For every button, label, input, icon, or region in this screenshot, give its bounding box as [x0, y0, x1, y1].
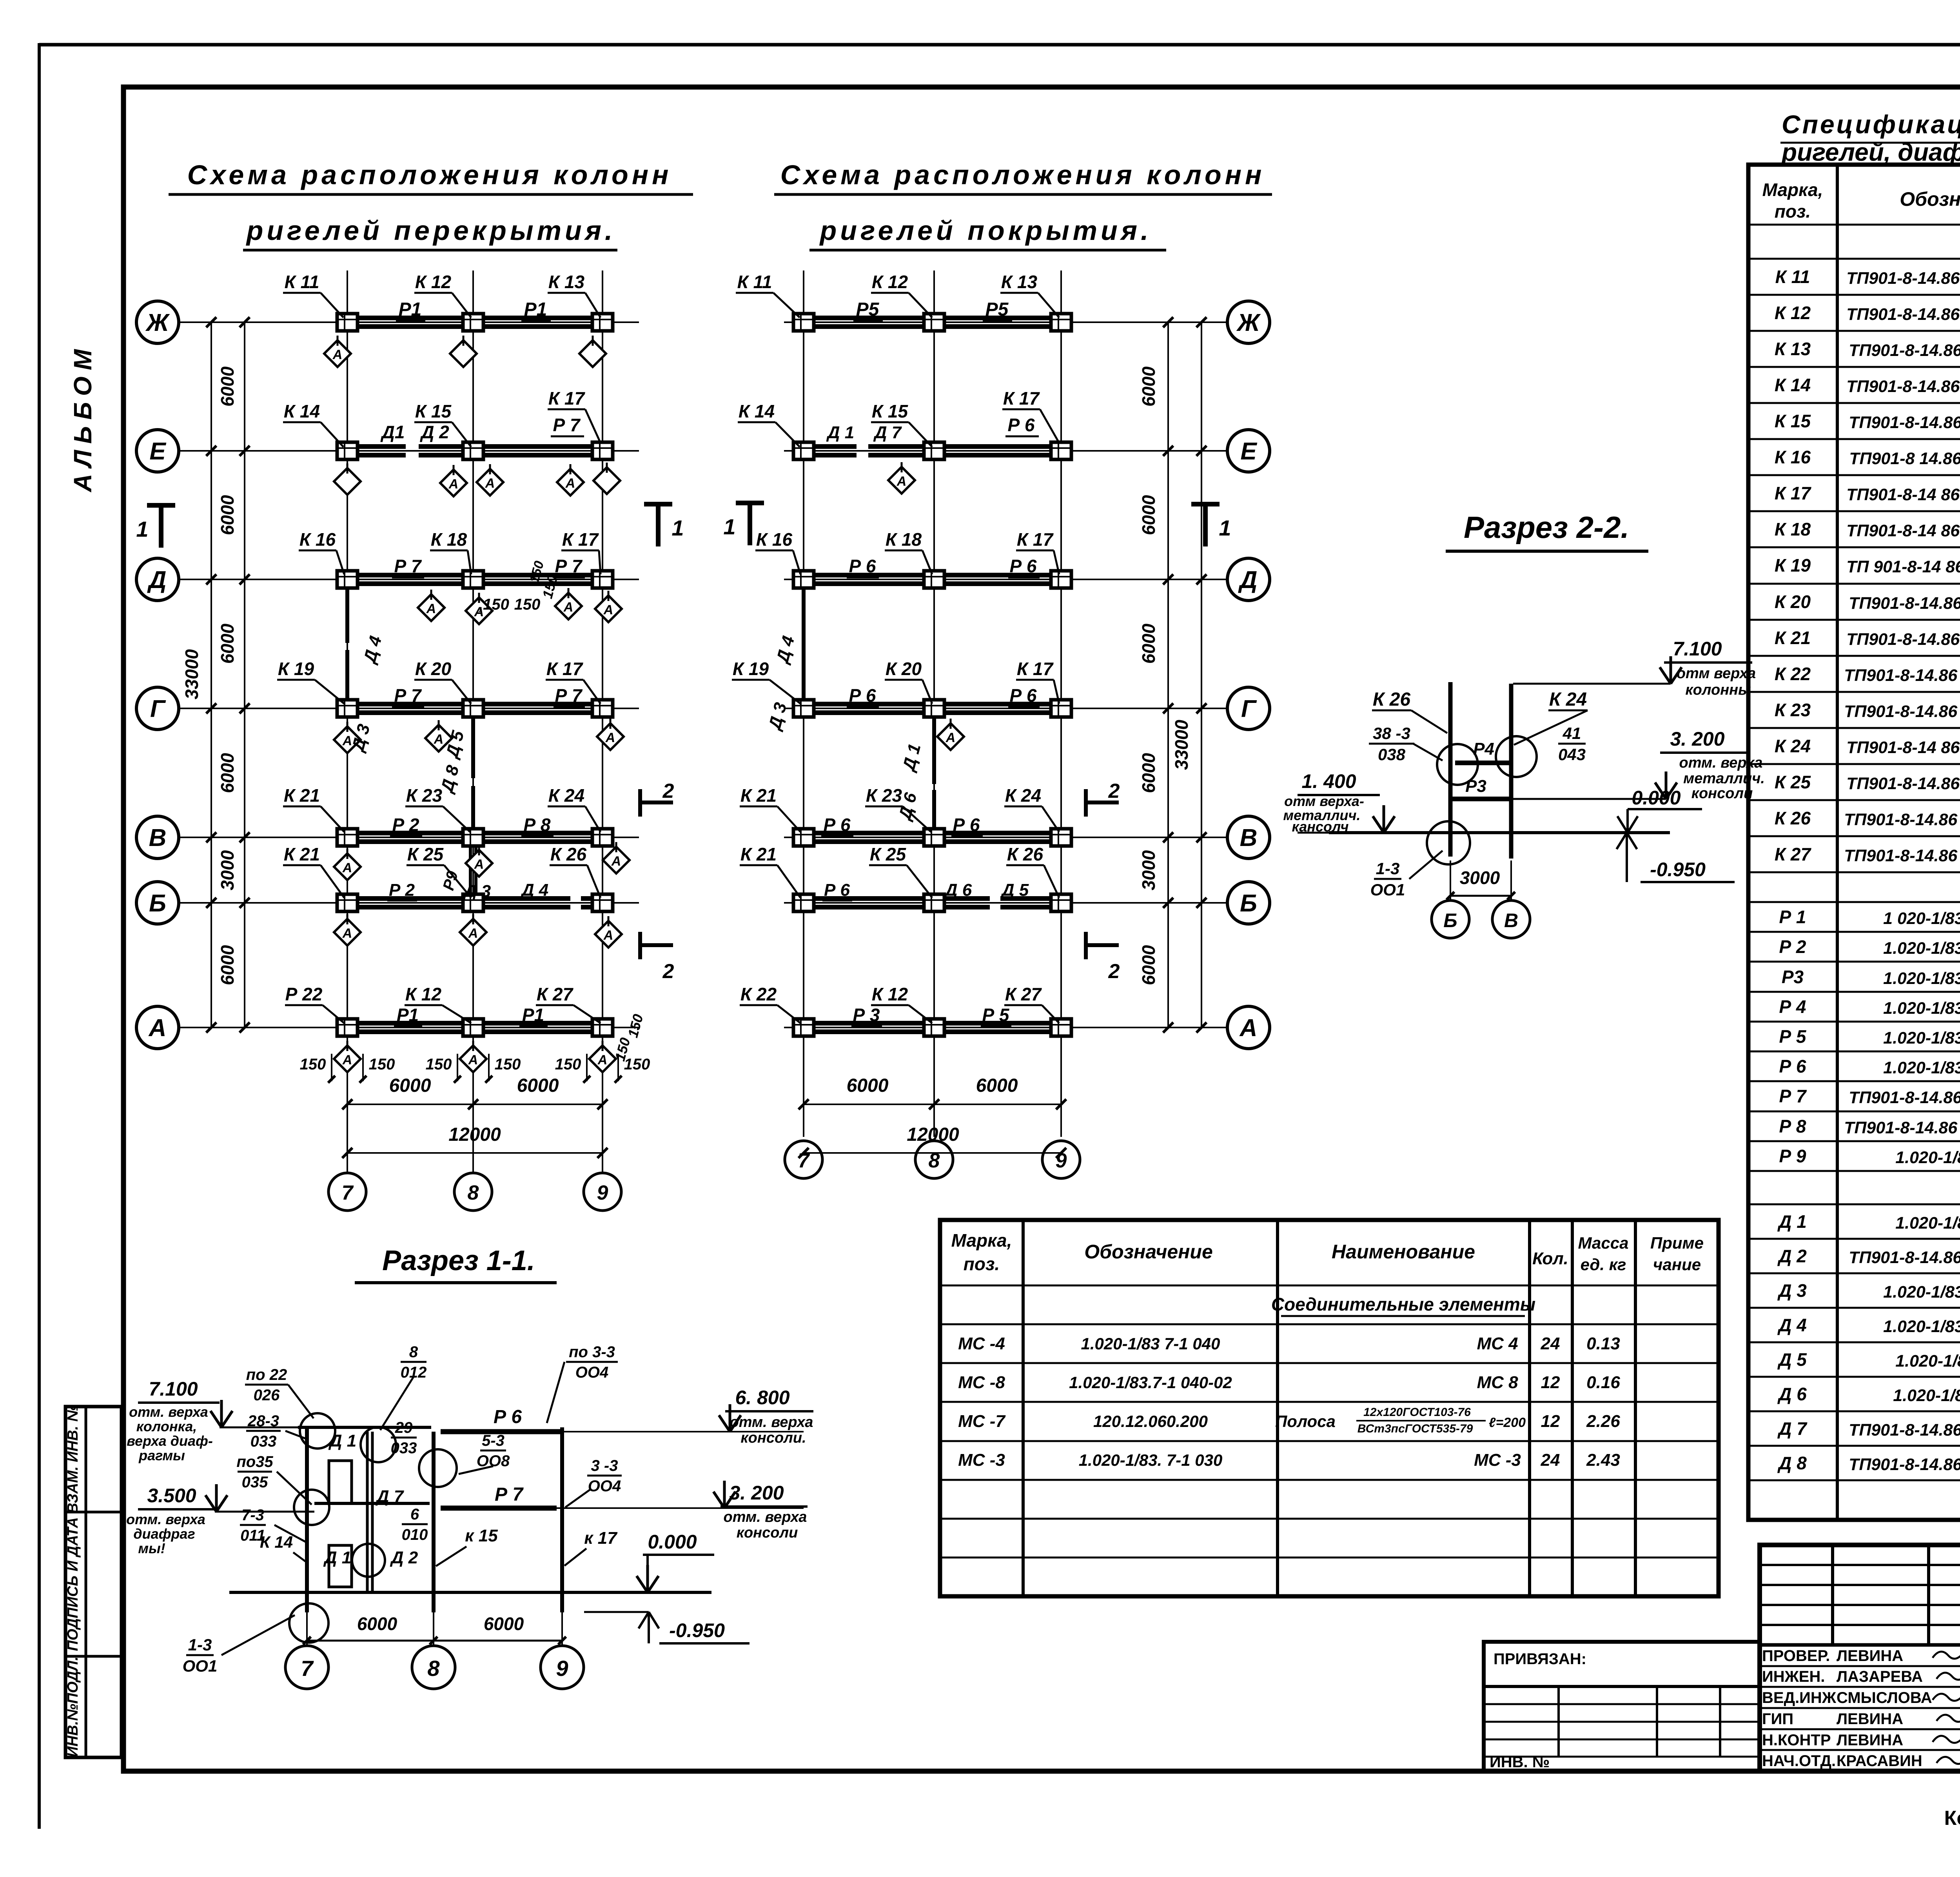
svg-text:Д 7: Д 7	[873, 423, 902, 442]
svg-text:К 19: К 19	[733, 659, 769, 679]
svg-text:Д 2: Д 2	[390, 1548, 418, 1567]
svg-text:8: 8	[929, 1149, 940, 1172]
svg-text:6000: 6000	[217, 945, 238, 985]
svg-text:Р 6: Р 6	[1779, 1056, 1806, 1076]
svg-text:Обозначение: Обозначение	[1900, 188, 1960, 210]
svg-text:035: 035	[242, 1474, 268, 1491]
svg-text:1.020-1/83.3-1 16-01: 1.020-1/83.3-1 16-01	[1883, 969, 1960, 988]
svg-text:Г: Г	[150, 695, 166, 722]
svg-text:Соединительные элементы: Соединительные элементы	[1271, 1294, 1535, 1314]
svg-text:К 24: К 24	[1549, 689, 1587, 710]
svg-text:5-3: 5-3	[482, 1432, 505, 1449]
svg-text:150: 150	[426, 1056, 452, 1073]
svg-text:отм. верха: отм. верха	[730, 1414, 813, 1430]
svg-text:К 20: К 20	[886, 659, 922, 679]
svg-text:Ж: Ж	[1236, 309, 1261, 336]
svg-text:3 -3: 3 -3	[591, 1457, 618, 1474]
svg-text:К 24: К 24	[1775, 736, 1811, 756]
svg-text:А: А	[468, 1053, 478, 1067]
svg-text:1: 1	[671, 516, 684, 540]
svg-text:рагмы: рагмы	[138, 1447, 185, 1463]
svg-text:6000: 6000	[484, 1614, 524, 1634]
svg-text:6000: 6000	[1138, 623, 1159, 664]
svg-text:7: 7	[301, 1656, 314, 1681]
svg-text:К 16: К 16	[756, 529, 793, 550]
svg-text:9: 9	[1056, 1149, 1067, 1172]
svg-text:верха диаф-: верха диаф-	[127, 1433, 213, 1449]
svg-text:1.020-1/83.3-1 02-02: 1.020-1/83.3-1 02-02	[1883, 939, 1960, 958]
svg-text:К 16: К 16	[299, 529, 336, 550]
svg-text:ТП901-8-14 86КЖИ 200.00.00: ТП901-8-14 86КЖИ 200.00.00	[1846, 485, 1960, 504]
svg-text:1.020-1/83. 4-1 21: 1.020-1/83. 4-1 21	[1893, 1386, 1960, 1405]
svg-text:А: А	[1239, 1015, 1258, 1042]
svg-text:Обозначение: Обозначение	[1084, 1241, 1213, 1263]
svg-text:150: 150	[624, 1012, 646, 1039]
svg-text:К 11: К 11	[737, 272, 772, 292]
svg-text:поз.: поз.	[1775, 201, 1811, 221]
svg-text:Г: Г	[1241, 695, 1257, 722]
svg-text:Д 4: Д 4	[1777, 1315, 1807, 1335]
svg-text:отм. верха: отм. верха	[129, 1404, 208, 1420]
svg-text:Д1: Д1	[380, 422, 405, 442]
svg-text:А: А	[563, 600, 573, 615]
svg-text:К 27: К 27	[1775, 844, 1812, 864]
svg-text:ПРОВЕР.: ПРОВЕР.	[1762, 1647, 1830, 1665]
svg-text:Б: Б	[149, 890, 166, 917]
svg-text:К 24: К 24	[1005, 785, 1041, 806]
svg-text:Разрез 2-2.: Разрез 2-2.	[1464, 510, 1629, 545]
svg-text:К 13: К 13	[1775, 339, 1811, 359]
svg-text:6000: 6000	[217, 753, 238, 793]
svg-text:6000: 6000	[389, 1075, 431, 1096]
svg-text:1: 1	[723, 514, 735, 539]
svg-text:ОО1: ОО1	[183, 1657, 218, 1675]
svg-text:6000: 6000	[847, 1075, 889, 1096]
svg-text:Р 5: Р 5	[1779, 1026, 1806, 1047]
svg-text:ВСт3псГОСТ535-79: ВСт3псГОСТ535-79	[1357, 1422, 1473, 1435]
svg-text:6000: 6000	[217, 366, 238, 407]
svg-text:1.020-1/83. 7-1 030: 1.020-1/83. 7-1 030	[1079, 1451, 1223, 1469]
svg-text:по 3-3: по 3-3	[569, 1343, 615, 1361]
svg-text:К 22: К 22	[1775, 664, 1811, 684]
svg-text:СМЫСЛОВА: СМЫСЛОВА	[1837, 1689, 1932, 1706]
svg-text:ИНВ. №: ИНВ. №	[1490, 1754, 1550, 1771]
svg-text:ТП901-8-14.86КЖИ451.00.00: ТП901-8-14.86КЖИ451.00.00	[1849, 1455, 1960, 1474]
svg-text:К 21: К 21	[284, 785, 320, 806]
svg-text:ТП901-8-14.86КЖИ200.00.00: ТП901-8-14.86КЖИ200.00.00	[1849, 413, 1960, 432]
svg-text:К 19: К 19	[278, 659, 314, 679]
svg-text:2.43: 2.43	[1586, 1450, 1620, 1470]
svg-text:Д 6: Д 6	[1777, 1384, 1807, 1404]
svg-text:К 14: К 14	[1775, 375, 1811, 395]
svg-text:чание: чание	[1653, 1255, 1701, 1274]
svg-text:24: 24	[1541, 1450, 1560, 1470]
svg-text:1.020-1/83.4-1 21-01: 1.020-1/83.4-1 21-01	[1883, 1283, 1960, 1302]
svg-text:12: 12	[1541, 1373, 1560, 1392]
svg-text:К 14: К 14	[260, 1533, 293, 1551]
svg-text:3000: 3000	[217, 850, 238, 890]
svg-text:В: В	[149, 824, 167, 851]
svg-text:ТП901-8-14.86 КЖИ 401.00.00: ТП901-8-14.86 КЖИ 401.00.00	[1844, 1118, 1960, 1137]
svg-text:колонны: колонны	[1685, 682, 1751, 698]
svg-text:Схема расположения колонн: Схема расположения колонн	[187, 160, 672, 190]
svg-text:Д 1: Д 1	[898, 742, 924, 774]
svg-text:А: А	[605, 730, 615, 745]
svg-text:ТП901-8-14.86 КЖИ 200.00.00: ТП901-8-14.86 КЖИ 200.00.00	[1844, 666, 1960, 685]
svg-text:А: А	[897, 474, 907, 489]
svg-text:Наименование: Наименование	[1332, 1241, 1475, 1263]
svg-text:033: 033	[250, 1433, 277, 1450]
svg-text:33000: 33000	[1171, 720, 1192, 770]
svg-text:6000: 6000	[1138, 495, 1159, 535]
svg-text:К 17: К 17	[562, 529, 599, 550]
svg-text:Д 3: Д 3	[463, 882, 491, 901]
svg-text:Н.КОНТР: Н.КОНТР	[1762, 1732, 1831, 1749]
svg-text:ЛЕВИНА: ЛЕВИНА	[1837, 1647, 1903, 1665]
svg-text:А: А	[342, 926, 352, 941]
svg-text:0.16: 0.16	[1586, 1373, 1620, 1392]
svg-text:6000: 6000	[976, 1075, 1018, 1096]
svg-text:к 15: к 15	[465, 1526, 498, 1545]
svg-text:К 26: К 26	[1373, 689, 1411, 710]
svg-text:Марка,: Марка,	[1762, 180, 1823, 200]
svg-text:К 25: К 25	[407, 844, 444, 864]
svg-text:А: А	[485, 476, 495, 491]
svg-text:Р1: Р1	[397, 1005, 419, 1025]
svg-text:1.020-1/83.3-1 02-01: 1.020-1/83.3-1 02-01	[1883, 1058, 1960, 1077]
svg-text:МС -8: МС -8	[958, 1373, 1005, 1392]
svg-text:6000: 6000	[217, 623, 238, 664]
svg-text:12х120ГОСТ103-76: 12х120ГОСТ103-76	[1363, 1406, 1471, 1419]
svg-text:Р4: Р4	[1473, 739, 1494, 759]
svg-text:28-3: 28-3	[247, 1412, 279, 1430]
svg-text:К 21: К 21	[740, 844, 777, 864]
svg-text:К 14: К 14	[739, 401, 775, 421]
svg-text:К 20: К 20	[415, 659, 452, 679]
svg-text:2: 2	[1108, 960, 1120, 983]
svg-text:Р 6: Р 6	[849, 685, 876, 706]
svg-text:41: 41	[1563, 724, 1581, 742]
svg-text:К 23: К 23	[866, 785, 902, 806]
svg-text:АЛЬБОМ: АЛЬБОМ	[69, 343, 97, 493]
svg-text:ОО4: ОО4	[588, 1478, 621, 1495]
svg-text:Е: Е	[149, 438, 166, 465]
svg-text:Д 1: Д 1	[826, 423, 854, 442]
svg-text:консоли: консоли	[1691, 785, 1753, 802]
svg-text:А: А	[332, 347, 343, 362]
svg-text:ТП901-8-14 86 КЖИ201 00.00: ТП901-8-14 86 КЖИ201 00.00	[1846, 521, 1960, 540]
svg-text:Приме: Приме	[1650, 1234, 1704, 1252]
svg-text:А: А	[342, 860, 352, 875]
svg-text:Д: Д	[1238, 566, 1258, 594]
svg-text:-0.950: -0.950	[1650, 859, 1706, 880]
svg-text:3000: 3000	[1460, 868, 1500, 888]
svg-text:1.020-1/83 4-1 31: 1.020-1/83 4-1 31	[1895, 1214, 1960, 1233]
svg-text:033: 033	[391, 1440, 417, 1457]
svg-text:1.020-1/83 3-1 14: 1.020-1/83 3-1 14	[1895, 1148, 1960, 1167]
svg-text:К 18: К 18	[886, 529, 922, 550]
svg-text:Р 7: Р 7	[394, 556, 422, 576]
svg-text:ℓ=200: ℓ=200	[1489, 1415, 1526, 1430]
svg-text:3.500: 3.500	[147, 1485, 196, 1507]
svg-text:А: А	[434, 732, 444, 747]
svg-text:150: 150	[495, 1056, 521, 1073]
svg-text:Р 7: Р 7	[555, 556, 583, 576]
svg-text:1.020-1/83 3-1 17-03: 1.020-1/83 3-1 17-03	[1883, 999, 1960, 1018]
svg-text:ТП901-8-14.86 КЖИ 200.00.00: ТП901-8-14.86 КЖИ 200.00.00	[1844, 846, 1960, 865]
svg-text:Р 7: Р 7	[495, 1484, 524, 1505]
svg-text:1.020-1/83.4-1 22-01: 1.020-1/83.4-1 22-01	[1883, 1317, 1960, 1336]
svg-text:Д 3: Д 3	[764, 701, 790, 733]
svg-text:К 25: К 25	[1775, 772, 1811, 792]
svg-text:1.020-1/83 4-1 22: 1.020-1/83 4-1 22	[1895, 1352, 1960, 1371]
svg-text:К 24: К 24	[548, 785, 584, 806]
svg-text:Р 6: Р 6	[1007, 415, 1034, 435]
svg-text:Д 5: Д 5	[1000, 880, 1029, 900]
svg-text:К 13: К 13	[1001, 272, 1038, 292]
svg-text:ЛЕВИНА: ЛЕВИНА	[1837, 1732, 1903, 1749]
svg-text:010: 010	[402, 1526, 428, 1543]
svg-text:В: В	[1240, 824, 1258, 851]
svg-text:ТП901-8-14.86 КЖИ200.01.00: ТП901-8-14.86 КЖИ200.01.00	[1846, 305, 1960, 324]
svg-text:К 18: К 18	[431, 529, 467, 550]
svg-text:Р 4: Р 4	[1779, 997, 1806, 1017]
svg-text:В: В	[1504, 909, 1518, 931]
svg-text:1-3: 1-3	[188, 1636, 212, 1654]
svg-text:Р 6: Р 6	[494, 1407, 522, 1427]
svg-text:7.100: 7.100	[149, 1378, 198, 1400]
svg-text:отм верха-: отм верха-	[1284, 793, 1364, 809]
svg-text:Д 7: Д 7	[375, 1487, 405, 1506]
svg-text:Д 3: Д 3	[1777, 1280, 1807, 1301]
svg-text:ТП901-8-14.86 КЖИ202.00.00: ТП901-8-14.86 КЖИ202.00.00	[1846, 377, 1960, 396]
svg-text:29: 29	[395, 1419, 413, 1436]
svg-text:К 21: К 21	[1775, 628, 1811, 648]
svg-text:Р 2: Р 2	[392, 815, 419, 835]
svg-text:9: 9	[556, 1656, 568, 1681]
svg-text:ТП901-8-14.86КЖИ 200.00.00: ТП901-8-14.86КЖИ 200.00.00	[1846, 774, 1960, 793]
svg-text:Схема расположения колонн: Схема расположения колонн	[780, 160, 1265, 190]
svg-text:поз.: поз.	[964, 1254, 1000, 1274]
svg-text:038: 038	[1378, 745, 1406, 764]
svg-text:А: А	[468, 926, 478, 941]
svg-text:А: А	[603, 928, 613, 943]
svg-text:Копировал: Логинова: Копировал: Логинова	[1944, 1807, 1960, 1830]
svg-text:3. 200: 3. 200	[1670, 728, 1724, 750]
svg-text:6000: 6000	[1138, 753, 1159, 793]
svg-text:ТП901-8-14.86КЖИ450.00.00: ТП901-8-14.86КЖИ450.00.00	[1849, 1248, 1960, 1267]
svg-text:38 -3: 38 -3	[1373, 724, 1410, 742]
svg-text:Р 7: Р 7	[553, 415, 581, 435]
svg-text:К 22: К 22	[740, 984, 777, 1004]
svg-text:МС -3: МС -3	[958, 1450, 1005, 1470]
svg-text:ВЕД.ИНЖ: ВЕД.ИНЖ	[1762, 1689, 1837, 1706]
svg-text:2: 2	[1108, 780, 1120, 802]
svg-text:К 26: К 26	[1775, 808, 1811, 828]
svg-text:Р 6: Р 6	[824, 880, 850, 900]
svg-text:2: 2	[662, 960, 674, 983]
svg-text:Д: Д	[147, 566, 167, 594]
svg-text:ПОДПИСЬ И ДАТА: ПОДПИСЬ И ДАТА	[65, 1517, 81, 1651]
svg-text:120.12.060.200: 120.12.060.200	[1093, 1412, 1208, 1430]
svg-text:К 21: К 21	[740, 785, 777, 806]
svg-text:МС -3: МС -3	[1474, 1450, 1521, 1470]
svg-text:К 12: К 12	[415, 272, 452, 292]
svg-text:К 13: К 13	[548, 272, 585, 292]
svg-text:Р 6: Р 6	[1009, 556, 1036, 576]
svg-text:Кол.: Кол.	[1532, 1249, 1568, 1268]
svg-text:К 11: К 11	[285, 272, 319, 292]
svg-text:МС 8: МС 8	[1477, 1373, 1518, 1392]
svg-text:К 12: К 12	[405, 984, 442, 1004]
svg-text:8: 8	[409, 1343, 418, 1361]
svg-text:по 22: по 22	[246, 1366, 287, 1383]
svg-text:ригелей покрытия.: ригелей покрытия.	[819, 215, 1152, 246]
svg-text:КРАСАВИН: КРАСАВИН	[1837, 1752, 1922, 1770]
svg-text:Р 7: Р 7	[394, 685, 422, 706]
svg-text:8: 8	[468, 1182, 479, 1204]
svg-text:ТП 901-8-14 86КЖИ200 00.00: ТП 901-8-14 86КЖИ200 00.00	[1846, 557, 1960, 576]
svg-text:3. 200: 3. 200	[729, 1482, 784, 1504]
svg-text:Марка,: Марка,	[951, 1230, 1012, 1251]
svg-text:Д 2: Д 2	[419, 422, 449, 442]
svg-text:ГИП: ГИП	[1762, 1710, 1793, 1728]
svg-text:К 16: К 16	[1775, 447, 1811, 467]
svg-text:0.000: 0.000	[648, 1531, 697, 1553]
svg-text:К 23: К 23	[406, 785, 443, 806]
svg-text:3000: 3000	[1138, 850, 1159, 890]
svg-text:2: 2	[662, 780, 674, 802]
svg-text:по35: по35	[236, 1453, 273, 1470]
svg-text:металлич.: металлич.	[1683, 770, 1765, 787]
svg-text:Д 1: Д 1	[328, 1431, 356, 1450]
svg-text:К 17: К 17	[1017, 659, 1054, 679]
svg-text:Р 2: Р 2	[1779, 937, 1806, 957]
svg-text:6000: 6000	[1138, 945, 1159, 985]
svg-text:Р 7: Р 7	[555, 685, 583, 706]
svg-text:ТП901-8-14 86 КЖИ200.00.00: ТП901-8-14 86 КЖИ200.00.00	[1846, 738, 1960, 757]
svg-text:К 15: К 15	[1775, 411, 1811, 431]
svg-text:К 17: К 17	[1017, 529, 1054, 550]
svg-text:12000: 12000	[448, 1124, 501, 1145]
svg-text:Р 3: Р 3	[853, 1005, 880, 1025]
svg-text:ЛЕВИНА: ЛЕВИНА	[1837, 1710, 1903, 1728]
svg-text:А: А	[426, 601, 436, 616]
svg-text:Р 1: Р 1	[1779, 907, 1806, 927]
svg-text:К 17: К 17	[1775, 483, 1812, 503]
svg-text:ТП901-8-14.86КЖИ400.00.00: ТП901-8-14.86КЖИ400.00.00	[1849, 1088, 1960, 1107]
svg-text:Р 5: Р 5	[982, 1005, 1009, 1025]
svg-text:6000: 6000	[517, 1075, 559, 1096]
svg-text:1 020-1/83 3-1 07-03: 1 020-1/83 3-1 07-03	[1883, 909, 1960, 928]
svg-text:Р9: Р9	[440, 869, 461, 892]
svg-text:ТП901-8 14.86КЖИ200.00.00: ТП901-8 14.86КЖИ200.00.00	[1849, 449, 1960, 468]
svg-text:Д 4: Д 4	[359, 634, 385, 666]
svg-text:ТП901-8-14.86 КЖИ 201.00.00: ТП901-8-14.86 КЖИ 201.00.00	[1844, 702, 1960, 721]
svg-text:Спецификация сборных железобет: Спецификация сборных железобетоных колон…	[1782, 110, 1960, 139]
svg-text:Р 8: Р 8	[523, 815, 550, 835]
svg-text:Д 4: Д 4	[520, 880, 548, 900]
svg-text:отм. верха: отм. верха	[126, 1511, 205, 1527]
svg-text:9: 9	[597, 1182, 608, 1204]
svg-text:7: 7	[342, 1182, 354, 1204]
svg-text:К 11: К 11	[1775, 267, 1810, 287]
svg-text:Д 1: Д 1	[323, 1548, 351, 1567]
svg-text:Б: Б	[1240, 890, 1257, 917]
svg-text:Д 6: Д 6	[944, 880, 972, 900]
svg-text:МС -7: МС -7	[958, 1412, 1006, 1431]
svg-text:К 27: К 27	[537, 984, 574, 1004]
svg-text:7.100: 7.100	[1673, 638, 1722, 660]
svg-text:Р 9: Р 9	[1779, 1146, 1806, 1166]
svg-text:1.020-1/83.7-1 040-02: 1.020-1/83.7-1 040-02	[1069, 1373, 1232, 1392]
svg-text:1.020-1/83 7-1 040: 1.020-1/83 7-1 040	[1081, 1334, 1220, 1353]
svg-text:8: 8	[427, 1656, 440, 1681]
svg-text:К 12: К 12	[872, 272, 908, 292]
svg-text:Д 1: Д 1	[1777, 1211, 1807, 1232]
svg-text:ЛАЗАРЕВА: ЛАЗАРЕВА	[1837, 1668, 1923, 1685]
svg-text:ИНЖЕН.: ИНЖЕН.	[1762, 1668, 1825, 1685]
svg-text:Д 8: Д 8	[1777, 1453, 1807, 1473]
svg-text:Р 8: Р 8	[1779, 1116, 1806, 1136]
svg-text:А: А	[342, 1053, 352, 1067]
svg-text:6000: 6000	[217, 495, 238, 535]
svg-text:Р 2: Р 2	[389, 880, 415, 900]
svg-text:ТП901-8-14.86КЖИ200 00.00: ТП901-8-14.86КЖИ200 00.00	[1849, 341, 1960, 360]
svg-text:к 17: к 17	[584, 1528, 618, 1548]
svg-text:150: 150	[514, 596, 541, 613]
svg-text:2.26: 2.26	[1586, 1412, 1620, 1431]
svg-text:А: А	[448, 477, 459, 492]
svg-text:12: 12	[1541, 1412, 1560, 1431]
svg-text:ТП901-8-14.86КЖИ450.00.00: ТП901-8-14.86КЖИ450.00.00	[1849, 1421, 1960, 1440]
svg-text:К 15: К 15	[415, 401, 452, 421]
svg-text:отм верха: отм верха	[1677, 665, 1756, 682]
svg-text:отм. верха: отм. верха	[724, 1509, 807, 1525]
svg-text:Разрез 1-1.: Разрез 1-1.	[382, 1245, 535, 1276]
svg-text:ОО1: ОО1	[1370, 880, 1405, 899]
svg-text:А: А	[603, 603, 613, 617]
svg-text:К 27: К 27	[1005, 984, 1042, 1004]
svg-text:Р5: Р5	[856, 299, 880, 320]
svg-text:мы!: мы!	[138, 1540, 165, 1556]
svg-text:К 12: К 12	[872, 984, 908, 1004]
svg-text:Д 5: Д 5	[1777, 1349, 1807, 1370]
svg-text:150: 150	[369, 1056, 395, 1073]
svg-text:Полоса: Полоса	[1275, 1412, 1336, 1430]
svg-text:К 26: К 26	[550, 844, 587, 864]
svg-text:К 19: К 19	[1775, 555, 1811, 575]
svg-text:Р 6: Р 6	[953, 815, 980, 835]
svg-text:К 18: К 18	[1775, 519, 1811, 539]
svg-text:7-3: 7-3	[241, 1507, 264, 1524]
svg-text:К 15: К 15	[872, 401, 909, 421]
svg-text:ТП901-8-14.86 КЖИ 200.00.00: ТП901-8-14.86 КЖИ 200.00.00	[1844, 810, 1960, 829]
svg-text:Д 4: Д 4	[772, 634, 798, 666]
svg-text:К 21: К 21	[284, 844, 320, 864]
svg-text:К 14: К 14	[284, 401, 320, 421]
svg-text:К 20: К 20	[1775, 592, 1811, 612]
svg-text:К 25: К 25	[870, 844, 907, 864]
svg-text:1. 400: 1. 400	[1301, 770, 1356, 792]
svg-text:6. 800: 6. 800	[735, 1387, 789, 1409]
svg-text:Р 6: Р 6	[1009, 685, 1036, 706]
svg-text:ВЗАМ. ИНВ. №: ВЗАМ. ИНВ. №	[65, 1405, 81, 1514]
svg-text:7: 7	[798, 1149, 810, 1172]
svg-text:К 17: К 17	[548, 388, 586, 408]
svg-text:ТП901-8-14.86КЖИ201.00.00: ТП901-8-14.86КЖИ201.00.00	[1849, 594, 1960, 613]
svg-text:консоли: консоли	[737, 1525, 798, 1541]
